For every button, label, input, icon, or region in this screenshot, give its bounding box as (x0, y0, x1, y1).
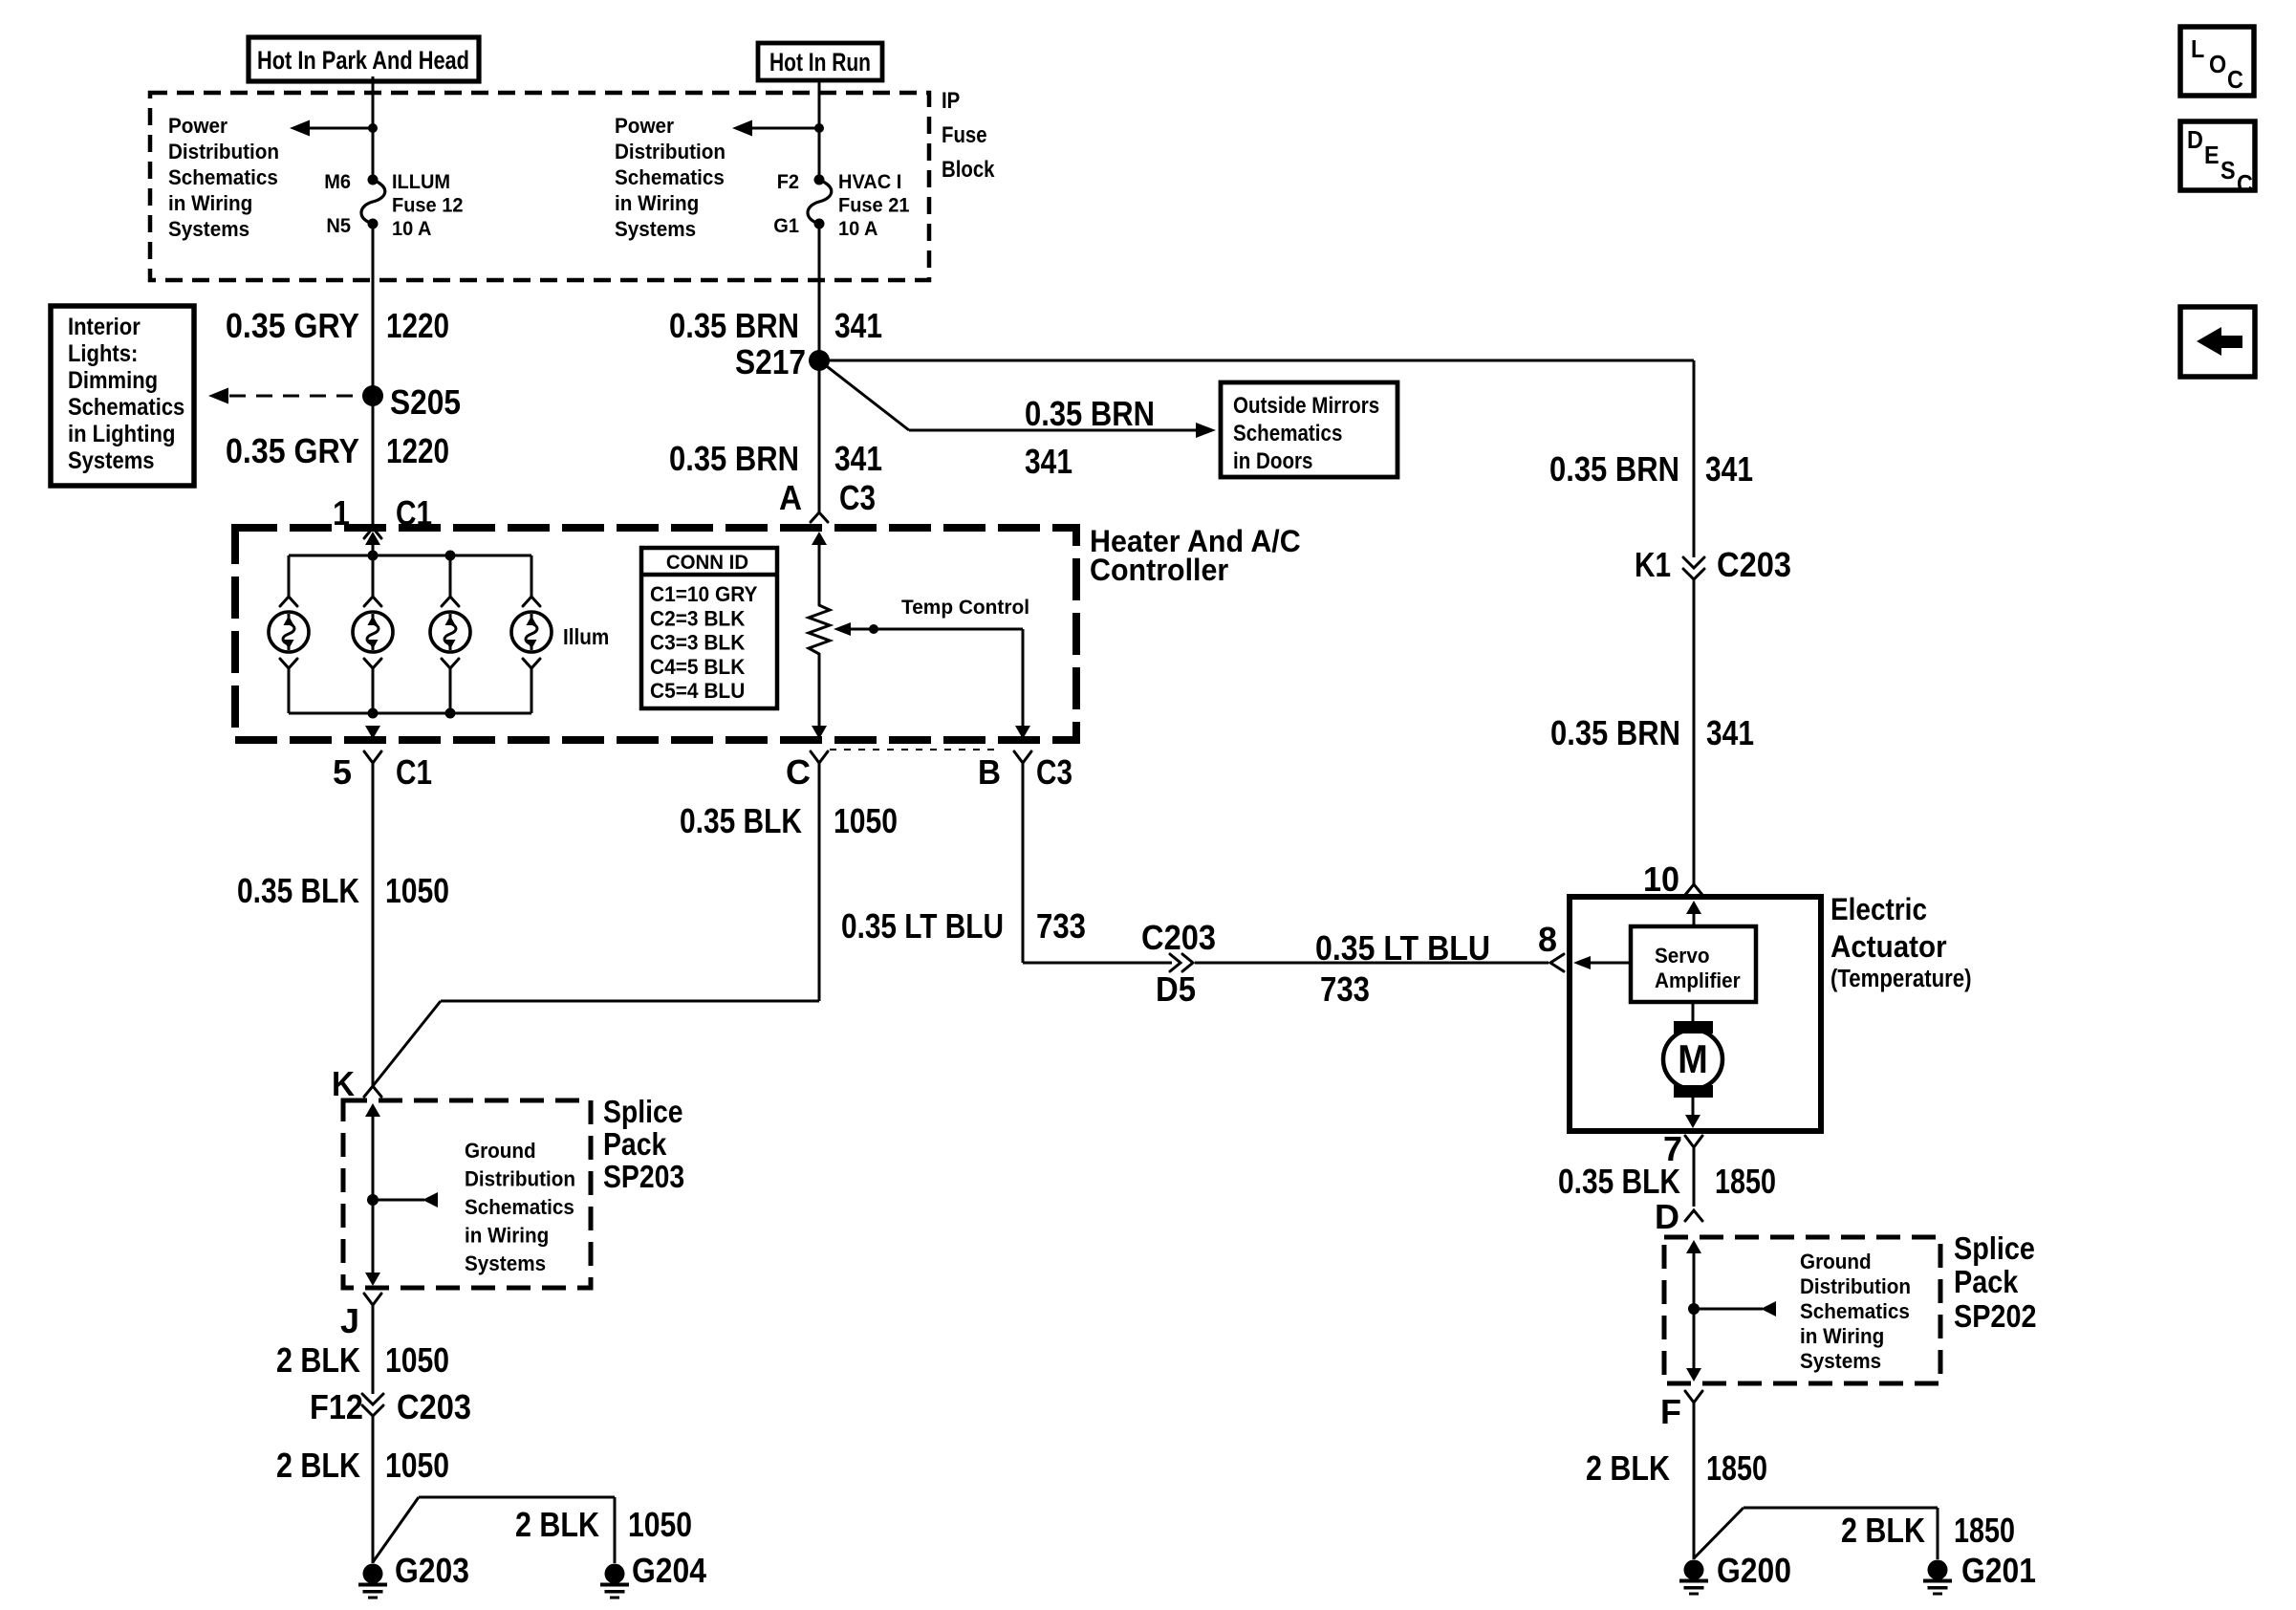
svg-text:0.35 BLK: 0.35 BLK (680, 801, 802, 840)
svg-text:2 BLK: 2 BLK (276, 1340, 360, 1380)
svg-text:Systems: Systems (68, 447, 155, 474)
entry arrow pin 10 inside actuator (1686, 901, 1701, 926)
connector C3 body (thin dashed) (830, 749, 999, 751)
wire label 0.35 BRN 341 (above connector A) (669, 439, 882, 478)
svg-text:K: K (332, 1064, 355, 1103)
svg-text:Power: Power (615, 114, 675, 138)
wire: branch to G201 (horizontal) (1744, 1507, 1938, 1510)
SP203 junction dot (367, 1194, 379, 1206)
svg-text:CONN ID: CONN ID (666, 551, 748, 574)
fuse ILLUM Fuse 12 10 A (361, 180, 385, 224)
svg-text:Lights:: Lights: (68, 340, 138, 367)
power feed label: Hot In Park And Head (249, 37, 479, 81)
svg-text:2 BLK: 2 BLK (1841, 1511, 1925, 1550)
svg-text:S: S (2220, 156, 2236, 185)
svg-text:Block: Block (942, 157, 995, 183)
svg-text:G204: G204 (632, 1551, 706, 1590)
note box: Outside Mirrors Schematics in Doors (1221, 382, 1397, 477)
wire label 0.35 BRN 341 (riser upper) (1549, 449, 1753, 489)
IP Fuse Block dashed box (150, 93, 929, 280)
exit arrow out of SP202 (1686, 1368, 1701, 1382)
splice S205 (362, 385, 383, 406)
svg-text:Systems: Systems (615, 217, 696, 241)
wire: 0.35 BLK 1050 from pin C down (818, 763, 821, 1001)
Splice Pack SP202 label (1954, 1231, 2037, 1335)
wire: 2 BLK 1050 from F12 to ground G203 (372, 1416, 375, 1563)
svg-text:Schematics: Schematics (1233, 421, 1342, 446)
connector symbol pin B (1014, 751, 1031, 763)
svg-text:Systems: Systems (168, 217, 249, 241)
connector pin A of C3 label (779, 478, 876, 517)
entry arrow pin A inside controller (812, 532, 827, 605)
svg-text:1050: 1050 (834, 801, 898, 840)
ground G203 (363, 1564, 383, 1584)
wire: branch to G201 (vertical) (1937, 1508, 1939, 1559)
pin N5 terminal dot (368, 219, 379, 229)
svg-text:B: B (978, 752, 1001, 792)
illumination lamp bus (top) (289, 555, 531, 557)
connector C203 pin D5 symbol (1170, 954, 1180, 971)
svg-text:1220: 1220 (386, 431, 449, 470)
exit arrow pin B inside controller (1015, 726, 1030, 739)
legend icon LOC (2180, 27, 2254, 96)
legend icon DESC (2180, 121, 2255, 198)
svg-text:Distribution: Distribution (1800, 1274, 1911, 1298)
wire label 0.35 BRN 341 (mirror branch) (1025, 394, 1155, 481)
note: Power Distribution Schematics in Wiring Systems (right) (615, 114, 726, 241)
svg-text:HVAC I: HVAC I (838, 170, 901, 193)
svg-text:in Wiring: in Wiring (615, 191, 699, 215)
wire label 2 BLK 1850 (G201) (1841, 1511, 2015, 1550)
svg-text:ILLUM: ILLUM (392, 170, 450, 193)
svg-text:IP: IP (942, 88, 960, 114)
svg-text:D: D (1655, 1197, 1679, 1236)
connector symbol K into SP203 (364, 1086, 381, 1097)
fuse 12 value label (392, 170, 464, 240)
wire: S217 branch to Outside Mirrors (horizontal) with arrow (909, 423, 1216, 438)
svg-text:Dimming: Dimming (68, 367, 158, 394)
wire label 0.35 BRN 341 (riser lower) (1550, 713, 1754, 752)
svg-text:S217: S217 (735, 342, 806, 381)
wire label 0.35 LT BLU 733 (horizontal) (1315, 928, 1490, 1009)
SP203 reference tap to Ground Distribution (373, 1192, 438, 1207)
connector pin B of C3 label (978, 752, 1072, 792)
svg-text:0.35 BRN: 0.35 BRN (1550, 713, 1680, 752)
svg-text:Systems: Systems (465, 1251, 546, 1275)
exit arrow pin C inside controller (812, 726, 827, 739)
Heater And A/C Controller label (1090, 524, 1301, 587)
svg-text:1050: 1050 (385, 1446, 449, 1485)
arrow to Power Distribution (left) (290, 120, 373, 137)
connector symbol pin J (364, 1294, 381, 1305)
CONN ID table (641, 548, 777, 708)
svg-text:Fuse 21: Fuse 21 (838, 194, 910, 217)
wire label 0.35 BLK 1050 (pin C wire) (680, 801, 898, 840)
svg-text:0.35 BRN: 0.35 BRN (669, 439, 799, 478)
svg-text:F: F (1660, 1392, 1681, 1431)
note: Ground Distribution Schematics in Wiring Systems (SP202) (1800, 1250, 1911, 1373)
svg-text:Schematics: Schematics (615, 165, 725, 189)
svg-text:D5: D5 (1156, 969, 1196, 1009)
svg-text:341: 341 (834, 439, 882, 478)
svg-text:(Temperature): (Temperature) (1830, 966, 1972, 992)
note: Power Distribution Schematics in Wiring Systems (left) (168, 114, 279, 241)
connector pin 5 of C1 label (333, 752, 432, 792)
svg-text:Outside Mirrors: Outside Mirrors (1233, 393, 1379, 419)
svg-text:0.35 BLK: 0.35 BLK (1558, 1162, 1680, 1201)
svg-text:C3: C3 (1036, 752, 1072, 792)
svg-text:SP203: SP203 (603, 1159, 684, 1194)
svg-text:C: C (2237, 169, 2253, 198)
svg-text:0.35 BRN: 0.35 BRN (669, 306, 799, 345)
wire: potentiometer to exit C (818, 654, 821, 727)
wire: S217 branch to Outside Mirrors (diagonal) (819, 360, 909, 430)
wire: 0.35 BLK 1050 from pin 5 to splice pack K (372, 763, 375, 1086)
svg-text:A: A (779, 478, 802, 517)
svg-text:Ground: Ground (1800, 1250, 1872, 1273)
svg-text:0.35 BRN: 0.35 BRN (1549, 449, 1679, 489)
splice S217 (809, 350, 830, 371)
svg-text:0.35 BRN: 0.35 BRN (1025, 394, 1155, 433)
svg-text:0.35 BLK: 0.35 BLK (237, 871, 359, 910)
Splice Pack SP203 dashed box (343, 1100, 591, 1288)
svg-text:1220: 1220 (386, 306, 449, 345)
svg-text:Servo: Servo (1655, 944, 1710, 968)
svg-text:E: E (2204, 141, 2220, 169)
Splice Pack SP202 dashed box (1664, 1237, 1940, 1383)
svg-text:1850: 1850 (1715, 1162, 1776, 1201)
svg-text:Schematics: Schematics (1800, 1299, 1910, 1323)
wire label 0.35 BLK 1050 (left wire) (237, 871, 449, 910)
svg-text:in Doors: in Doors (1233, 448, 1313, 474)
svg-text:1850: 1850 (1706, 1448, 1767, 1488)
wire: branch to G201 (diagonal) (1694, 1508, 1744, 1558)
wire label 2 BLK 1050 (G204) (515, 1505, 692, 1544)
svg-text:733: 733 (1320, 969, 1370, 1009)
dashed reference arrow to Interior Lights note (208, 388, 360, 404)
wire label 0.35 BLK 1850 (1558, 1162, 1776, 1201)
svg-text:C3: C3 (839, 478, 876, 517)
exit arrow out of SP203 (365, 1273, 380, 1286)
svg-text:Illum: Illum (563, 624, 609, 649)
wire: wiper to exit B (1022, 629, 1025, 727)
svg-text:Pack: Pack (1954, 1265, 2019, 1300)
connector symbol pin D (1685, 1210, 1702, 1221)
svg-text:5: 5 (333, 752, 352, 792)
svg-text:2 BLK: 2 BLK (1586, 1448, 1670, 1488)
svg-text:in Wiring: in Wiring (465, 1224, 549, 1248)
wire: right riser 0.35 BRN 341 down to C203 (1693, 360, 1696, 557)
svg-text:M: M (1678, 1036, 1708, 1081)
svg-text:C: C (2227, 65, 2243, 94)
note box: Interior Lights Dimming Schematics in Lighting Systems (51, 306, 194, 486)
svg-text:733: 733 (1036, 906, 1086, 946)
connector symbol pin F (1685, 1391, 1702, 1403)
fuse HVAC I Fuse 21 10 A (808, 180, 832, 224)
power feed label: Hot In Run (758, 43, 882, 80)
svg-text:Fuse 12: Fuse 12 (392, 194, 464, 217)
wire: 0.35 BRN 341 from fuse to connector A C3 (818, 360, 821, 512)
svg-text:341: 341 (1705, 449, 1753, 489)
svg-text:Splice: Splice (1954, 1231, 2035, 1267)
svg-text:0.35 GRY: 0.35 GRY (226, 431, 359, 470)
note: Ground Distribution Schematics in Wiring Systems (SP203) (465, 1139, 575, 1275)
svg-text:C5=4 BLU: C5=4 BLU (650, 679, 745, 703)
legend icon back arrow (2180, 307, 2255, 377)
wire: 2 BLK 1850 from F to ground G200 (1693, 1403, 1696, 1559)
wire: 0.35 LT BLU 733 to actuator pin 8 (left part) (1023, 962, 1172, 965)
svg-text:C1=10 GRY: C1=10 GRY (650, 582, 758, 606)
svg-text:G200: G200 (1717, 1551, 1791, 1590)
svg-text:8: 8 (1538, 920, 1557, 959)
svg-text:Ground: Ground (465, 1139, 536, 1163)
pin F2 terminal dot (814, 175, 825, 185)
wire: 0.35 LT BLU 733 to actuator pin 8 (right part) (1195, 962, 1549, 965)
svg-text:in Wiring: in Wiring (168, 191, 252, 215)
svg-text:F2: F2 (777, 170, 799, 193)
svg-text:C203: C203 (1141, 918, 1216, 957)
illumination lamp bus (bottom) (289, 712, 531, 715)
wire label 0.35 BRN 341 (above S217) (669, 306, 882, 345)
wire: branch to G204 (diagonal) (373, 1497, 419, 1562)
IP Fuse Block label (942, 88, 995, 183)
svg-text:Fuse: Fuse (942, 122, 987, 148)
svg-text:Schematics: Schematics (68, 394, 184, 421)
potentiometer wiper arrow (834, 622, 1023, 636)
connector symbol pin 1 C1 (364, 528, 381, 538)
svg-text:1050: 1050 (628, 1505, 692, 1544)
wire: 0.35 BLK 1850 from pin 7 to connector D (1693, 1147, 1696, 1207)
svg-text:S205: S205 (390, 382, 461, 422)
fuse 21 value label (838, 170, 910, 240)
servo amplifier output arrow to pin 8 (1573, 956, 1631, 969)
svg-text:0.35 GRY: 0.35 GRY (226, 306, 359, 345)
svg-text:Splice: Splice (603, 1094, 683, 1129)
svg-text:Interior: Interior (68, 314, 141, 340)
Electric Actuator label (1830, 892, 1972, 992)
connector symbol pin A C3 (811, 512, 828, 522)
SP202 reference tap to Ground Distribution (1694, 1301, 1776, 1316)
svg-text:Hot In Run: Hot In Run (769, 48, 871, 76)
motor M (temperature actuator) (1663, 1021, 1722, 1098)
svg-text:F12: F12 (310, 1387, 363, 1426)
svg-text:341: 341 (834, 306, 882, 345)
wire label 2 BLK 1050 (lower) (276, 1446, 449, 1485)
wire: 0.35 GRY 1220 from fuse 12 to connector C1 (372, 224, 375, 528)
wire: 2 BLK 1050 from J to connector F12 (372, 1305, 375, 1394)
svg-text:Distribution: Distribution (615, 140, 726, 163)
entry arrow pin 1 inside controller (365, 532, 380, 555)
wire label 2 BLK 1050 (upper) (276, 1340, 449, 1380)
wire: 0.35 BRN 341 from fuse 21 to S217 (818, 224, 821, 360)
wiper junction dot (869, 624, 878, 634)
ground G201 (1928, 1560, 1948, 1580)
Heater And A/C Controller dashed box (235, 528, 1076, 740)
connector symbol pin C (811, 751, 828, 763)
svg-text:L: L (2191, 34, 2204, 63)
Electric Actuator box (1570, 897, 1821, 1131)
svg-text:Hot In Park And Head: Hot In Park And Head (257, 46, 469, 75)
connector symbol actuator pin 8 (1550, 954, 1564, 971)
svg-text:2 BLK: 2 BLK (515, 1505, 599, 1544)
ground G204 (605, 1564, 625, 1584)
svg-text:Controller: Controller (1090, 553, 1228, 587)
svg-text:SP202: SP202 (1954, 1299, 2037, 1335)
wire: Hot In Park feed down to fuse 12 (372, 76, 375, 180)
svg-text:C4=5 BLK: C4=5 BLK (650, 655, 745, 679)
pin G1 terminal dot (814, 219, 825, 229)
svg-text:N5: N5 (326, 214, 351, 237)
wire: branch to G204 (horizontal) (419, 1496, 615, 1499)
wire: pin C run to splice pack (horizontal) (441, 1000, 819, 1003)
svg-text:Pack: Pack (603, 1126, 667, 1162)
ground G200 (1684, 1560, 1704, 1580)
svg-text:Schematics: Schematics (465, 1195, 574, 1219)
svg-text:G201: G201 (1961, 1551, 2036, 1590)
svg-text:in Lighting: in Lighting (68, 421, 175, 447)
illumination lamp 2 (353, 555, 393, 713)
entry arrow into SP202 (1686, 1240, 1701, 1368)
connector F12 C203 symbol (362, 1394, 383, 1404)
wire: servo amplifier to motor (1692, 1002, 1695, 1023)
pin M6 terminal dot (368, 175, 379, 185)
wire: S217 to right riser (horizontal) (819, 359, 1694, 362)
svg-text:0.35 LT BLU: 0.35 LT BLU (1315, 928, 1490, 968)
actuator pin 10 connector symbol (1685, 884, 1702, 895)
svg-text:Actuator: Actuator (1830, 929, 1947, 964)
wire label 0.35 GRY 1220 (upper) (226, 306, 449, 345)
svg-text:2 BLK: 2 BLK (276, 1446, 360, 1485)
svg-text:341: 341 (1706, 713, 1754, 752)
wire: pin C run to splice pack (diagonal) (373, 1001, 441, 1086)
illumination lamp 1 (269, 555, 309, 713)
svg-text:D: D (2187, 125, 2203, 154)
svg-text:G203: G203 (395, 1551, 469, 1590)
svg-text:10: 10 (1643, 859, 1679, 899)
svg-text:Systems: Systems (1800, 1349, 1881, 1373)
wire: riser into actuator pin 10 (1693, 579, 1696, 884)
connector symbol pin 5 C1 (364, 751, 381, 763)
wire: branch to G204 (vertical) (614, 1497, 617, 1563)
svg-text:C2=3 BLK: C2=3 BLK (650, 606, 745, 630)
svg-text:O: O (2209, 50, 2226, 78)
svg-text:G1: G1 (773, 214, 799, 237)
svg-text:1850: 1850 (1954, 1511, 2015, 1550)
svg-text:341: 341 (1025, 442, 1072, 481)
Splice Pack SP203 label (603, 1094, 684, 1194)
svg-text:10 A: 10 A (838, 217, 878, 240)
wire: Hot In Run feed down to fuse 21 (818, 78, 821, 180)
svg-text:Distribution: Distribution (465, 1167, 575, 1191)
wire label 2 BLK 1850 (G200) (1586, 1448, 1767, 1488)
exit arrow pin 5 inside controller (365, 726, 380, 739)
svg-text:in Wiring: in Wiring (1800, 1324, 1884, 1348)
svg-text:Schematics: Schematics (168, 165, 278, 189)
svg-text:C1: C1 (396, 752, 432, 792)
servo amplifier box (1631, 926, 1756, 1002)
wire label 0.35 GRY 1220 (lower) (226, 431, 449, 470)
bus junction dots (bottom) (368, 708, 379, 719)
entry arrow into SP203 (365, 1103, 380, 1273)
svg-text:10 A: 10 A (392, 217, 432, 240)
svg-text:C203: C203 (397, 1387, 471, 1426)
connector K1 C203 symbol (1683, 557, 1704, 568)
svg-text:K1: K1 (1635, 545, 1671, 584)
svg-text:Amplifier: Amplifier (1655, 968, 1741, 992)
svg-text:Temp Control: Temp Control (901, 596, 1029, 619)
wire: 0.35 LT BLU 733 from pin B down (1022, 763, 1025, 963)
svg-text:1050: 1050 (385, 871, 449, 910)
wire label 0.35 LT BLU 733 (pin B wire) (841, 906, 1086, 946)
svg-text:C203: C203 (1717, 545, 1791, 584)
arrow to Power Distribution (right) (732, 120, 819, 137)
wire: motor to actuator pin 7 with exit arrow (1685, 1098, 1700, 1128)
svg-text:M6: M6 (324, 170, 351, 193)
illumination lamp 3 (430, 555, 470, 713)
svg-text:Distribution: Distribution (168, 140, 279, 163)
svg-text:C3=3 BLK: C3=3 BLK (650, 631, 745, 655)
svg-text:0.35 LT BLU: 0.35 LT BLU (841, 906, 1004, 946)
temp control potentiometer (809, 605, 830, 654)
illumination lamp 4 (511, 555, 552, 713)
bus junction dots (top) (368, 551, 379, 561)
SP202 junction dot (1688, 1303, 1700, 1315)
junction dot on left feed (368, 123, 378, 133)
junction dot on right feed (814, 123, 824, 133)
svg-text:Power: Power (168, 114, 228, 138)
svg-text:Electric: Electric (1830, 892, 1927, 926)
connector symbol actuator pin 7 (1685, 1136, 1702, 1147)
svg-text:C: C (786, 752, 811, 792)
connector pin 1 of C1 label (333, 493, 432, 533)
svg-text:J: J (340, 1301, 359, 1340)
svg-text:1050: 1050 (385, 1340, 449, 1380)
